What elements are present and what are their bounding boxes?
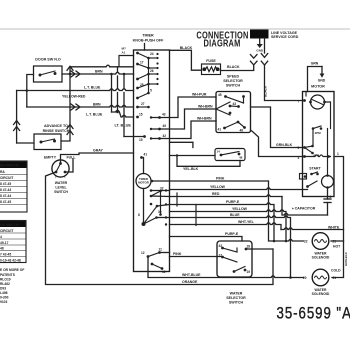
svg-text:14: 14 [217, 150, 221, 154]
svg-text:LT. BLUE: LT. BLUE [115, 124, 132, 128]
timer internal contacts lower [147, 180, 164, 270]
wire service cord right lead to motor pin 7 [265, 39, 304, 101]
svg-text:YELLOW-RED: YELLOW-RED [62, 95, 86, 99]
wire PURP-E upper [157, 203, 274, 241]
ground GND under plug [259, 39, 261, 45]
svg-text:RLO19: RLO19 [0, 278, 11, 282]
motor pin 1 wire to right rail [327, 155, 330, 158]
svg-text:L.T. BLUE: L.T. BLUE [86, 113, 103, 117]
svg-text:KNOB-PUSH OFF: KNOB-PUSH OFF [133, 39, 164, 43]
svg-text:BLACK: BLACK [180, 46, 193, 50]
svg-text:0-19-43 42-48: 0-19-43 42-48 [0, 259, 21, 263]
water selector switch S6 [217, 241, 252, 277]
wire WHITE right rail to solenoids [281, 228, 344, 278]
svg-text:WATER: WATER [230, 292, 243, 296]
svg-text:26: 26 [150, 69, 154, 73]
svg-text:PURP-E: PURP-E [226, 200, 240, 204]
svg-text:DOOR SW N.O: DOOR SW N.O [35, 58, 61, 62]
wire left rail to rinse switch [16, 91, 18, 144]
timer motor TM1 [136, 174, 151, 189]
svg-text:L498: L498 [0, 291, 8, 295]
svg-text:17: 17 [140, 61, 144, 65]
motor pin 7 [303, 99, 306, 102]
svg-text:DIAGRAM: DIAGRAM [203, 37, 240, 48]
svg-text:FUSE: FUSE [206, 59, 216, 63]
svg-text:24: 24 [150, 52, 154, 56]
svg-text:BLACK: BLACK [227, 65, 240, 69]
lid switch S5 YEL-BLK [170, 142, 241, 166]
motor main winding circle [311, 95, 325, 109]
wire rinse switch left to rail [17, 142, 34, 144]
svg-text:SWITCH: SWITCH [226, 84, 241, 88]
svg-text:ADVANCE TO: ADVANCE TO [44, 124, 68, 128]
svg-text:30: 30 [158, 210, 162, 214]
svg-text:WATER: WATER [55, 181, 68, 185]
node junction at lt-blue wire [26, 89, 29, 92]
wire WH-PUR timer 43 to speed selector [151, 97, 216, 118]
line voltage service cord plug [250, 30, 269, 39]
svg-text:1: 1 [337, 152, 339, 156]
timer internal contacts upper [136, 52, 161, 159]
svg-text:E OR MORE OF: E OR MORE OF [0, 268, 24, 272]
svg-text:BLUE: BLUE [230, 213, 240, 217]
patent note text [0, 268, 24, 304]
svg-text:DE SWITCH: DE SWITCH [0, 164, 19, 168]
svg-text:YEL-BLK: YEL-BLK [183, 167, 199, 171]
svg-text:D93: D93 [0, 287, 6, 291]
motor pin 5 [303, 146, 306, 149]
svg-text:♦ CAPACITOR: ♦ CAPACITOR [292, 207, 316, 211]
svg-text:15: 15 [139, 113, 143, 117]
svg-text:42: 42 [163, 134, 167, 138]
svg-text:12: 12 [141, 251, 145, 255]
svg-text:MOTOR: MOTOR [311, 85, 325, 89]
wire PINK to water selector 17 [160, 253, 222, 257]
svg-text:SWITCH: SWITCH [54, 190, 68, 194]
svg-text:RED: RED [212, 192, 220, 196]
svg-text:MOTOR: MOTOR [138, 181, 150, 185]
svg-text:ORANGE: ORANGE [182, 280, 198, 284]
wire service cord left lead (black) [221, 65, 254, 70]
junction dots on left wires [69, 73, 126, 114]
svg-text:28: 28 [140, 83, 144, 87]
svg-text:PINK: PINK [173, 252, 182, 256]
svg-text:WH-BRN: WH-BRN [197, 117, 212, 121]
svg-text:4: 4 [0, 235, 2, 239]
svg-text:8 47-45: 8 47-45 [0, 182, 11, 186]
motor speed contacts 4PM upper [312, 127, 315, 130]
svg-text:BRN: BRN [95, 70, 103, 74]
hot water solenoid L1 [312, 233, 329, 250]
wire PURP-E to water selector [170, 237, 243, 242]
left table 2: selector switch chart [0, 221, 26, 263]
svg-text:22: 22 [304, 240, 308, 244]
svg-text:GND: GND [318, 79, 326, 83]
svg-text:8 47-43: 8 47-43 [0, 188, 11, 192]
svg-text:WH-BRN: WH-BRN [198, 105, 213, 109]
wire BLACK timer to fuse [145, 44, 202, 71]
svg-text:GRN-BLK: GRN-BLK [344, 251, 348, 266]
svg-text:PINK: PINK [216, 177, 225, 181]
svg-text:HOT: HOT [333, 245, 341, 249]
svg-text:L.T. BLUE: L.T. BLUE [84, 86, 101, 90]
svg-text:20: 20 [303, 276, 307, 280]
wire GRAY water level to timer [61, 153, 134, 164]
svg-text:48: 48 [239, 156, 243, 160]
svg-text:GRAY: GRAY [93, 149, 103, 153]
timer pin labels [139, 52, 166, 157]
junction dots right zone [273, 240, 292, 279]
svg-text:49-17: 49-17 [0, 241, 9, 245]
wire fuse to service cord, BLACK [220, 70, 222, 72]
wire YELLOW to motor start [151, 188, 308, 191]
svg-text:SELECTOR: SELECTOR [223, 79, 243, 83]
svg-text:15: 15 [139, 138, 143, 142]
svg-text:27: 27 [141, 102, 145, 106]
svg-text:19: 19 [247, 270, 251, 274]
wire WH-BRN timer 49 to speed selector [151, 109, 216, 129]
start contact from yellow wire [306, 185, 309, 188]
wire WHT-BLUE to cold solenoid [148, 257, 304, 278]
wire YELLOW lower [170, 210, 287, 241]
svg-text:18: 18 [247, 245, 251, 249]
svg-text:GND: GND [256, 49, 264, 53]
svg-text:21: 21 [333, 276, 337, 280]
svg-text:COLD: COLD [331, 269, 341, 273]
svg-text:4PM: 4PM [313, 154, 320, 158]
motor pin 3 [303, 155, 306, 158]
svg-text:SWITCH: SWITCH [229, 301, 244, 305]
speed selector switch S4 [223, 75, 243, 88]
svg-text:RA: RA [0, 170, 5, 174]
svg-text:41: 41 [144, 153, 148, 157]
svg-text:RL462: RL462 [0, 282, 10, 286]
svg-text:SOLENOID: SOLENOID [312, 292, 330, 296]
wire BRN door switch to timer [62, 72, 134, 74]
connector chevrons on right lead [261, 54, 267, 65]
svg-text:43: 43 [162, 113, 166, 117]
svg-text:TIMER: TIMER [142, 34, 154, 38]
svg-text:START: START [309, 167, 321, 171]
svg-text:5: 5 [150, 89, 152, 93]
bundle jog stubs [177, 193, 196, 226]
svg-text:49: 49 [163, 124, 167, 128]
svg-text:WHITE: WHITE [328, 226, 340, 230]
svg-text:48: 48 [0, 247, 4, 251]
label LINE VOLTAGE SERVICE CORD [271, 31, 299, 39]
connector arrows on left rail [14, 121, 20, 131]
motor internal wiring [306, 92, 331, 176]
svg-text:5: 5 [298, 146, 300, 150]
wire speed selector to motor 5 GRN-BLK [251, 107, 304, 148]
left table: selector switch chart [0, 161, 27, 212]
wire WHT-YEL [170, 223, 282, 230]
start winding circle [322, 176, 334, 188]
svg-text:WHT-YEL: WHT-YEL [238, 220, 255, 224]
svg-text:11: 11 [159, 248, 163, 252]
svg-text:BLACK: BLACK [264, 85, 268, 97]
svg-text:SELECTOR: SELECTOR [226, 296, 246, 300]
wire into timer contact 15 lower [124, 136, 144, 138]
svg-text:GRN-BLK: GRN-BLK [276, 143, 293, 147]
wire rinse switch right with up arrow [61, 65, 134, 141]
svg-text:OR SWITCH: OR SWITCH [0, 223, 19, 227]
svg-text:CIRCUIT: CIRCUIT [0, 229, 13, 233]
wire LT BLUE lower to timer contact 15 [112, 110, 134, 117]
svg-text:SERVICE CORD: SERVICE CORD [271, 35, 299, 39]
wire ORANGE: water level left contact down and right [46, 172, 274, 285]
svg-text:17: 17 [219, 254, 223, 258]
svg-text:WH-PUR: WH-PUR [192, 93, 207, 97]
svg-text:7: 7 [298, 100, 300, 104]
svg-text:9103: 9103 [0, 300, 8, 304]
svg-text:3: 3 [298, 156, 300, 160]
svg-text:A1: A1 [122, 51, 126, 55]
wire YELLOW-RED / BRN to timer contact 27 [27, 105, 134, 107]
wire door switch left down to yellow-red node [27, 75, 34, 108]
wire WH-BRN timer 42 to speed selector [151, 121, 216, 139]
svg-text:4PM: 4PM [315, 131, 322, 135]
connector chevrons on left lead [250, 55, 257, 65]
svg-text:43: 43 [233, 102, 237, 106]
svg-text:12: 12 [162, 270, 166, 274]
svg-text:CIRCUIT: CIRCUIT [0, 176, 13, 180]
svg-text:LINE VOLTAGE: LINE VOLTAGE [271, 31, 298, 35]
svg-text:7 42-45: 7 42-45 [0, 253, 11, 257]
wire timer motor vertical [143, 158, 145, 225]
vertical drop wires left of timer [112, 67, 125, 137]
svg-text:YELLOW: YELLOW [232, 207, 248, 211]
wire PINK to hot solenoid [152, 181, 304, 241]
cold water solenoid L2 [312, 269, 329, 286]
svg-text:RINSE SWITCH: RINSE SWITCH [43, 129, 70, 133]
svg-text:43: 43 [219, 244, 223, 248]
capacitor C1 below motor [282, 188, 331, 216]
svg-text:2: 2 [330, 195, 332, 199]
svg-text:PATENTS: PATENTS [0, 273, 16, 277]
svg-text:8 47-45: 8 47-45 [0, 200, 11, 204]
wire RED to capacitor [151, 195, 282, 197]
svg-text:46: 46 [240, 129, 244, 133]
svg-text:41: 41 [218, 128, 222, 132]
svg-text:LEVEL: LEVEL [55, 186, 67, 190]
motor ground wire GRN [308, 67, 323, 92]
svg-text:GRN: GRN [311, 62, 319, 66]
svg-text:PURP-E: PURP-E [225, 232, 239, 236]
timer stub box upper left [119, 56, 134, 67]
svg-text:45: 45 [218, 93, 222, 97]
wire speed selector 46 to motor 3 [251, 130, 304, 157]
svg-text:BRN: BRN [93, 103, 101, 107]
svg-text:YELLOW: YELLOW [210, 185, 226, 189]
wire BLUE [157, 216, 291, 278]
svg-text:SOLENOID: SOLENOID [312, 256, 330, 260]
svg-text:35-6599 "A": 35-6599 "A" [277, 304, 350, 323]
svg-text:9-300: 9-300 [0, 296, 9, 300]
svg-text:WHT-BLUE: WHT-BLUE [182, 273, 201, 277]
wire LT BLUE to timer [17, 89, 134, 91]
svg-text:SPEED: SPEED [227, 75, 240, 79]
title CONNECTION DIAGRAM [196, 29, 248, 48]
svg-text:FULL: FULL [67, 156, 77, 160]
wire full contact stub [65, 159, 73, 172]
svg-text:EMPTY: EMPTY [44, 156, 57, 160]
svg-text:8 47-44: 8 47-44 [0, 194, 11, 198]
svg-text:21: 21 [333, 240, 337, 244]
top page rule [0, 28, 350, 30]
svg-text:8: 8 [138, 213, 140, 217]
